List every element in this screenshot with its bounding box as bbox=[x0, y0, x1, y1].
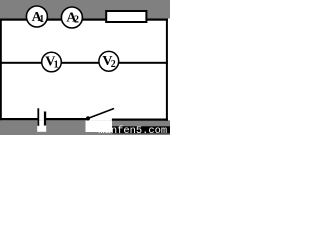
switch lever bbox=[88, 109, 114, 119]
battery long plate bbox=[37, 108, 39, 126]
wire bottom-right bbox=[112, 119, 168, 121]
wire battery-to-switch bbox=[45, 118, 89, 120]
wire bottom-left bbox=[0, 118, 38, 120]
voltmeter V2 bbox=[99, 51, 119, 71]
watermark box bbox=[112, 126, 170, 133]
wire right bbox=[166, 19, 168, 121]
svg-text:2: 2 bbox=[74, 14, 79, 25]
svg-text:2: 2 bbox=[111, 59, 116, 70]
wire left bbox=[0, 19, 2, 121]
white notch around battery bbox=[37, 120, 46, 132]
svg-text:1: 1 bbox=[39, 14, 44, 25]
battery short plate bbox=[44, 112, 46, 126]
switch pivot dot bbox=[86, 116, 90, 120]
wire top bbox=[0, 19, 168, 21]
svg-text:manfen5.com: manfen5.com bbox=[98, 125, 167, 135]
wire middle bbox=[0, 62, 168, 64]
white notch around switch bbox=[86, 120, 113, 132]
svg-text:1: 1 bbox=[54, 60, 59, 71]
ammeter A1 bbox=[26, 6, 47, 27]
gray band top bbox=[0, 0, 170, 19]
ammeter A2 bbox=[61, 7, 82, 28]
resistor R bbox=[106, 11, 146, 22]
gray band bottom bbox=[0, 120, 170, 135]
voltmeter V1 bbox=[42, 52, 62, 72]
